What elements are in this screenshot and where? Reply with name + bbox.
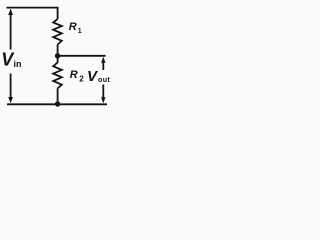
node junction dot (R2/bottom wire) xyxy=(55,101,60,106)
wire Vin measure lower segment xyxy=(10,74,12,100)
wire middle (node to Vout tap) xyxy=(58,55,106,57)
resistor R2 xyxy=(53,57,62,88)
wire bottom (return) xyxy=(7,103,107,105)
svg-text:1: 1 xyxy=(78,28,82,35)
svg-text:in: in xyxy=(14,59,22,69)
svg-text:R: R xyxy=(69,21,77,33)
label Vout xyxy=(87,68,110,85)
label R1 xyxy=(69,21,82,35)
Vin measurement arrow up xyxy=(8,9,13,15)
svg-text:out: out xyxy=(98,75,110,84)
label R2 xyxy=(70,69,84,83)
wire R1 bottom lead to node xyxy=(57,45,59,55)
Vout measurement arrow up xyxy=(101,57,105,63)
Vin measurement arrow down xyxy=(8,97,13,103)
wire Vout measure upper segment xyxy=(102,61,104,70)
wire R2 bottom lead to node xyxy=(57,88,59,103)
Vout measurement arrow down xyxy=(101,97,105,103)
resistor R1 xyxy=(53,19,62,45)
wire top (Vin+ to R1) xyxy=(7,8,58,19)
wire Vout measure lower segment xyxy=(102,85,104,100)
wire Vin measure upper segment xyxy=(10,13,12,50)
svg-text:2: 2 xyxy=(79,75,84,84)
node junction dot (R1/R2/Vout tap) xyxy=(55,53,60,58)
svg-text:R: R xyxy=(70,69,78,81)
label Vin xyxy=(1,50,21,70)
